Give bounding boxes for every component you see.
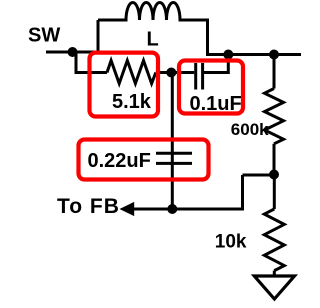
junction dot SW node (68, 47, 78, 57)
inductor L (98, 3, 208, 21)
wire top rail to 600k (273, 55, 276, 89)
wire FB riser (241, 175, 244, 211)
wire capacitor C1 to top rail (204, 55, 228, 73)
wire left riser to inductor (97, 20, 100, 54)
junction dot 600k top (269, 50, 279, 60)
svg-text:600k: 600k (231, 120, 269, 139)
highlight box 5.1k (90, 53, 159, 117)
wire node A down to FB line (171, 73, 174, 210)
wire 600k to tap (273, 144, 276, 175)
capacitor C1 0.1uF (196, 63, 203, 90)
junction dot node A (166, 68, 176, 78)
wire resistor to capacitor C1 (156, 71, 194, 74)
wire SW input (46, 51, 98, 54)
capacitor C2 0.22uF (156, 153, 192, 163)
resistor R1 5.1k (107, 61, 156, 84)
junction dot C1 top (223, 50, 233, 60)
wire stub down from SW node (75, 52, 78, 73)
svg-text:L: L (147, 29, 159, 51)
junction dot FB node (167, 204, 177, 214)
wire top rail (206, 53, 301, 56)
wire FB line (133, 208, 243, 211)
resistor R3 10k (264, 209, 284, 271)
highlight box 0.22uF (79, 140, 209, 180)
svg-text:10k: 10k (215, 232, 247, 253)
wire right riser from inductor (206, 19, 209, 55)
svg-text:To FB: To FB (57, 195, 120, 218)
junction dot divider tap (269, 170, 279, 180)
svg-text:0.22uF: 0.22uF (88, 150, 151, 172)
wire 10k to ground (273, 271, 276, 276)
ground (254, 276, 294, 299)
resistor R2 600k (265, 89, 284, 144)
highlight box 0.1uF (179, 61, 243, 114)
wire to resistor R1 (75, 71, 108, 74)
wire to divider tap (243, 174, 275, 177)
arrow to FB (120, 202, 135, 216)
svg-text:5.1k: 5.1k (112, 91, 152, 113)
wire tap to 10k (273, 175, 276, 210)
svg-text:SW: SW (28, 24, 60, 46)
